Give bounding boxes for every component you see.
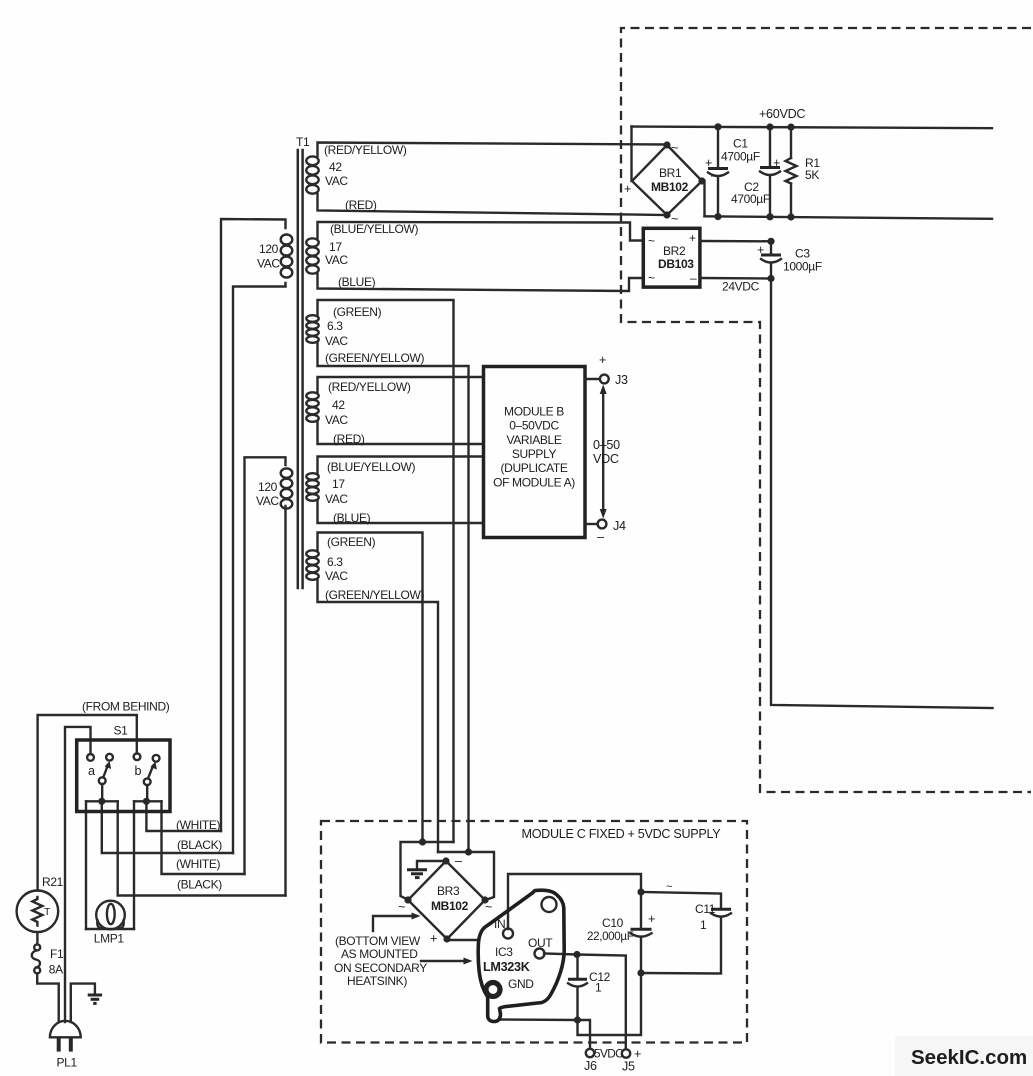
- svg-text:17: 17: [329, 240, 342, 254]
- svg-text:4700µF: 4700µF: [731, 192, 770, 206]
- svg-text:+: +: [430, 932, 437, 946]
- svg-text:(BLACK): (BLACK): [177, 838, 222, 852]
- svg-text:(GREEN): (GREEN): [327, 535, 376, 549]
- svg-text:LMP1: LMP1: [94, 932, 125, 946]
- svg-text:+: +: [634, 1047, 641, 1061]
- svg-text:ON SECONDARY: ON SECONDARY: [334, 961, 427, 975]
- svg-text:–: –: [711, 168, 718, 182]
- svg-text:BR3: BR3: [437, 884, 460, 898]
- svg-text:SeekIC.com: SeekIC.com: [911, 1046, 1027, 1069]
- svg-text:42: 42: [332, 398, 345, 412]
- svg-text:VAC: VAC: [256, 494, 279, 508]
- svg-text:S1: S1: [114, 724, 129, 738]
- svg-text:~: ~: [671, 141, 678, 155]
- svg-text:+: +: [648, 912, 655, 926]
- svg-text:(DUPLICATE: (DUPLICATE: [501, 461, 568, 475]
- svg-text:BR1: BR1: [659, 166, 682, 180]
- svg-text:(RED/YELLOW): (RED/YELLOW): [328, 380, 411, 394]
- svg-text:(FROM BEHIND): (FROM BEHIND): [82, 700, 170, 714]
- svg-text:120: 120: [258, 480, 278, 494]
- svg-text:~: ~: [398, 900, 405, 914]
- svg-text:VARIABLE: VARIABLE: [506, 433, 561, 447]
- svg-text:17: 17: [332, 477, 345, 491]
- svg-text:a: a: [88, 764, 95, 778]
- svg-text:6.3: 6.3: [327, 319, 343, 333]
- svg-text:J5: J5: [622, 1060, 635, 1074]
- svg-text:–: –: [690, 271, 697, 285]
- svg-text:–: –: [597, 530, 604, 544]
- svg-text:VAC: VAC: [325, 253, 348, 267]
- svg-text:VAC: VAC: [325, 569, 348, 583]
- svg-text:1000µF: 1000µF: [783, 260, 822, 274]
- svg-text:VAC: VAC: [257, 257, 280, 271]
- svg-text:MB102: MB102: [431, 899, 469, 913]
- svg-text:(BLUE/YELLOW): (BLUE/YELLOW): [327, 460, 415, 474]
- svg-text:MB102: MB102: [651, 180, 689, 194]
- svg-text:(RED): (RED): [345, 198, 377, 212]
- svg-text:24VDC: 24VDC: [722, 280, 760, 294]
- svg-text:VAC: VAC: [325, 174, 348, 188]
- svg-text:DB103: DB103: [658, 257, 694, 271]
- svg-text:J6: J6: [584, 1059, 597, 1073]
- svg-text:IN: IN: [494, 917, 505, 931]
- svg-text:T1: T1: [296, 135, 310, 149]
- svg-text:LM323K: LM323K: [483, 960, 530, 974]
- svg-text:AS MOUNTED: AS MOUNTED: [341, 947, 418, 961]
- svg-text:(GREEN/YELLOW): (GREEN/YELLOW): [325, 351, 424, 365]
- svg-text:22,000µF: 22,000µF: [587, 930, 634, 943]
- svg-text:R21: R21: [42, 875, 64, 889]
- svg-text:4700µF: 4700µF: [721, 150, 760, 164]
- svg-text:42: 42: [329, 160, 342, 174]
- svg-text:–: –: [455, 854, 462, 868]
- svg-text:BR2: BR2: [663, 244, 686, 258]
- svg-text:C10: C10: [602, 916, 624, 930]
- svg-text:(GREEN/YELLOW): (GREEN/YELLOW): [325, 588, 424, 602]
- svg-text:+: +: [773, 156, 780, 170]
- svg-text:+60VDC: +60VDC: [759, 107, 805, 121]
- svg-text:(BLUE/YELLOW): (BLUE/YELLOW): [330, 222, 418, 236]
- svg-text:J3: J3: [615, 373, 628, 387]
- svg-text:5VDC: 5VDC: [594, 1047, 624, 1061]
- svg-text:1: 1: [595, 981, 602, 995]
- svg-text:VAC: VAC: [325, 334, 348, 348]
- svg-text:~: ~: [666, 881, 672, 893]
- svg-text:SUPPLY: SUPPLY: [512, 447, 557, 461]
- svg-text:GND: GND: [508, 977, 534, 991]
- svg-text:0–50: 0–50: [593, 438, 620, 452]
- svg-text:b: b: [135, 764, 142, 778]
- svg-text:~: ~: [648, 234, 655, 248]
- svg-text:C11: C11: [695, 902, 716, 916]
- svg-text:(BOTTOM VIEW: (BOTTOM VIEW: [335, 934, 421, 948]
- svg-text:VAC: VAC: [325, 413, 348, 427]
- svg-text:+: +: [757, 243, 764, 257]
- svg-text:OUT: OUT: [528, 936, 553, 950]
- svg-text:+: +: [689, 231, 696, 245]
- svg-text:PL1: PL1: [57, 1056, 78, 1070]
- svg-text:OF MODULE A): OF MODULE A): [493, 475, 575, 489]
- svg-text:(BLUE): (BLUE): [333, 511, 371, 525]
- svg-text:C1: C1: [733, 137, 748, 151]
- svg-text:IC3: IC3: [495, 945, 513, 959]
- svg-text:(BLACK): (BLACK): [177, 878, 222, 892]
- svg-text:+: +: [624, 182, 631, 196]
- svg-text:(WHITE): (WHITE): [176, 818, 221, 832]
- svg-text:~: ~: [671, 212, 678, 226]
- svg-text:6.3: 6.3: [327, 555, 343, 569]
- svg-text:J4: J4: [613, 519, 626, 533]
- svg-text:T: T: [44, 906, 51, 918]
- svg-text:(WHITE): (WHITE): [176, 857, 221, 871]
- svg-text:C3: C3: [795, 247, 810, 261]
- svg-text:0–50VDC: 0–50VDC: [509, 419, 559, 433]
- svg-text:120: 120: [259, 242, 279, 256]
- svg-text:MODULE B: MODULE B: [504, 405, 564, 419]
- svg-text:VDC: VDC: [593, 452, 619, 466]
- svg-text:HEATSINK): HEATSINK): [347, 974, 407, 988]
- svg-text:8A: 8A: [49, 963, 63, 977]
- svg-text:VAC: VAC: [325, 492, 348, 506]
- svg-text:(RED/YELLOW): (RED/YELLOW): [324, 143, 407, 157]
- svg-text:(BLUE): (BLUE): [338, 275, 376, 289]
- svg-text:(RED): (RED): [333, 432, 365, 446]
- svg-text:MODULE C FIXED + 5VDC SUPPLY: MODULE C FIXED + 5VDC SUPPLY: [522, 827, 722, 841]
- svg-text:~: ~: [648, 271, 655, 285]
- svg-text:+: +: [599, 353, 606, 367]
- svg-text:F1: F1: [50, 947, 64, 961]
- svg-text:5K: 5K: [805, 168, 819, 182]
- svg-text:~: ~: [485, 900, 492, 914]
- svg-text:1: 1: [700, 918, 707, 932]
- svg-text:(GREEN): (GREEN): [333, 305, 382, 319]
